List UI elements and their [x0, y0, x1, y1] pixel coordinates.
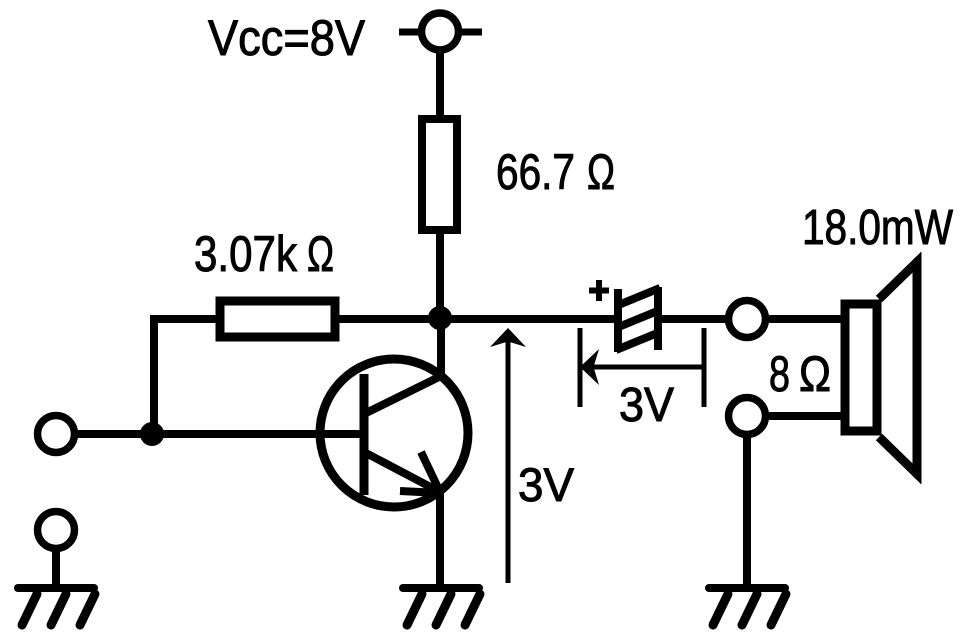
arrowhead left [580, 349, 599, 385]
wire node B to base [152, 430, 362, 438]
svg-text:3.07k: 3.07k [194, 226, 298, 282]
svg-text:3V: 3V [518, 458, 575, 511]
wire lower terminal to speaker [768, 412, 845, 420]
wire input terminal to node B [77, 430, 154, 438]
wire Vcc to R1 [436, 52, 444, 119]
wire output terminal to speaker [768, 315, 845, 323]
node B base junction [140, 422, 164, 446]
wire R2 to node A [335, 315, 440, 323]
arrowhead up [490, 328, 526, 347]
capacitor C1 [616, 287, 660, 352]
wire node A to capacitor [440, 315, 616, 323]
wire lower left terminal to ground [52, 551, 60, 589]
transistor Q1 [320, 359, 468, 507]
Vcc supply terminal [399, 13, 482, 50]
svg-text:Vcc=8V: Vcc=8V [208, 10, 366, 66]
ground right [709, 588, 786, 625]
capacitor polarity plus [589, 280, 609, 301]
output terminal minus [729, 398, 766, 435]
terminal lower left [38, 512, 75, 549]
resistor R1 [422, 119, 457, 230]
ground center [403, 588, 480, 625]
ground left [18, 588, 95, 625]
wire lower terminal to ground [743, 437, 751, 589]
svg-text:Ω: Ω [587, 144, 615, 200]
svg-text:Ω: Ω [307, 226, 334, 282]
speaker SP [845, 262, 917, 474]
input terminal [38, 416, 75, 453]
wire collector [437, 318, 445, 379]
svg-text:Ω: Ω [799, 346, 831, 402]
wire capacitor to output terminal [658, 315, 726, 323]
wire R1 to collector node [436, 230, 444, 322]
arrow 3V output voltage [506, 338, 511, 583]
output terminal plus [729, 301, 766, 338]
wire emitter to ground [436, 489, 444, 589]
svg-text:66.7: 66.7 [496, 144, 575, 200]
node A collector junction [428, 306, 452, 330]
svg-text:8: 8 [769, 346, 790, 402]
svg-text:3V: 3V [619, 379, 674, 432]
svg-text:18.0mW: 18.0mW [802, 201, 954, 255]
measure 3V across capacitor [580, 328, 704, 407]
resistor R2 [220, 301, 335, 337]
wire R2 left to node B [154, 319, 216, 434]
